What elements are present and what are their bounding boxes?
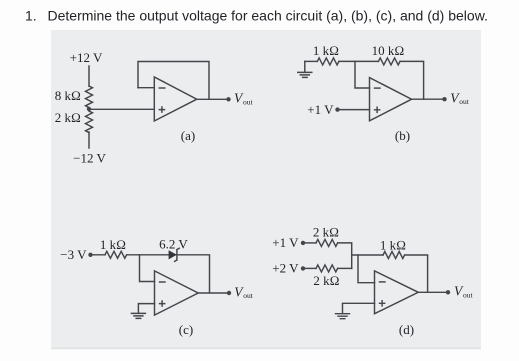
plus sign inside (375, 107, 380, 112)
wire output (418, 291, 447, 293)
svg-text:1 kΩ: 1 kΩ (380, 238, 406, 253)
svg-text:out: out (459, 97, 470, 106)
node Vout terminal dot (226, 97, 230, 101)
op-amp U-a triangle (154, 77, 197, 121)
svg-text:6.2 V: 6.2 V (159, 237, 188, 252)
gray panel (51, 30, 481, 349)
wire feedback to - input (138, 87, 154, 89)
minus sign inside (380, 281, 386, 283)
svg-text:2 kΩ: 2 kΩ (313, 273, 339, 288)
svg-text:2 kΩ: 2 kΩ (313, 225, 339, 240)
svg-text:+12 V: +12 V (70, 50, 103, 65)
svg-text:+1 V: +1 V (272, 235, 299, 250)
node +2V terminal dot (301, 266, 305, 270)
wire R bottom to junction (338, 267, 352, 269)
wire junction to feedback (352, 254, 383, 256)
wire R10k to output (400, 61, 424, 99)
svg-text:(c): (c) (179, 322, 193, 337)
wire + input to ground (343, 303, 375, 313)
svg-text:(a): (a) (181, 128, 195, 143)
resistor R 1k (horizontal zigzag) (317, 58, 339, 65)
wire output (412, 98, 444, 100)
svg-text:10 kΩ: 10 kΩ (372, 43, 405, 58)
resistor R 10k (horizontal zigzag feedback) (378, 58, 400, 65)
node -3V terminal dot (88, 253, 92, 257)
wire R top to junction (338, 243, 352, 269)
svg-text:+2 V: +2 V (272, 261, 299, 276)
svg-text:−3 V: −3 V (60, 247, 87, 262)
wire output (197, 98, 228, 100)
svg-text:8 kΩ: 8 kΩ (55, 88, 81, 103)
node Vout terminal dot (227, 291, 231, 295)
plus sign inside (159, 107, 164, 112)
resistor R 8k (vertical zigzag) (86, 86, 93, 108)
ground (131, 313, 145, 318)
wire R to node, node down to - input (127, 255, 155, 282)
resistor R 1k (horizontal zigzag) (105, 251, 127, 258)
plus sign inside (380, 301, 385, 306)
svg-text:−12 V: −12 V (73, 150, 106, 165)
svg-text:out: out (463, 290, 474, 299)
node Vout terminal dot (442, 97, 446, 101)
wire +1V to R top (303, 242, 316, 244)
node Vout terminal dot (446, 290, 450, 294)
diode D zener 6.2V (169, 250, 177, 259)
op-amp U-c triangle (155, 271, 199, 315)
minus sign inside (375, 87, 381, 89)
node junction dot (87, 107, 91, 111)
wire R1 to node (339, 60, 378, 62)
ground (336, 314, 350, 319)
wire node to op-amp + input (89, 108, 154, 110)
wire -3V to R (91, 254, 106, 256)
svg-text:1 kΩ: 1 kΩ (100, 237, 126, 252)
wire branch down to - input (358, 255, 375, 283)
resistor R 1k feedback (horizontal zigzag) (383, 252, 405, 259)
svg-text:+1 V: +1 V (307, 102, 334, 117)
wire ground to R1 (305, 60, 318, 62)
minus sign inside (159, 87, 165, 89)
minus sign inside (160, 281, 166, 283)
svg-text:2 kΩ: 2 kΩ (55, 110, 81, 125)
svg-text:Determine the output voltage f: Determine the output voltage for each ci… (48, 8, 488, 24)
wire +2V to R bottom (303, 267, 316, 269)
wire node down to - input (355, 61, 370, 88)
wire resistor bottom to -12V (88, 132, 90, 148)
wire +1V to + input (338, 109, 370, 111)
wire feedback with diode (140, 255, 210, 293)
svg-text:1 kΩ: 1 kΩ (313, 43, 339, 58)
node +1V terminal dot (335, 107, 339, 111)
node +1V terminal dot (301, 241, 305, 245)
wire R 1k to output (405, 255, 428, 292)
resistor R 2k (vertical zigzag) (86, 111, 93, 133)
wire from +12V down (88, 66, 90, 86)
svg-text:(d): (d) (399, 322, 414, 337)
svg-text:(b): (b) (395, 128, 410, 143)
plus sign inside (160, 301, 165, 306)
resistor R 2k bottom (horizontal zigzag) (316, 265, 338, 272)
wire feedback loop (138, 62, 209, 100)
ground (298, 61, 312, 77)
op-amp U-b triangle (370, 78, 412, 121)
svg-text:out: out (243, 291, 254, 300)
wire output (198, 292, 228, 294)
resistor R 2k top (horizontal zigzag) (316, 239, 338, 246)
svg-text:1.: 1. (25, 8, 37, 24)
op-amp U-d triangle (375, 271, 419, 314)
svg-text:out: out (243, 97, 254, 106)
wire + input to ground (138, 304, 154, 314)
